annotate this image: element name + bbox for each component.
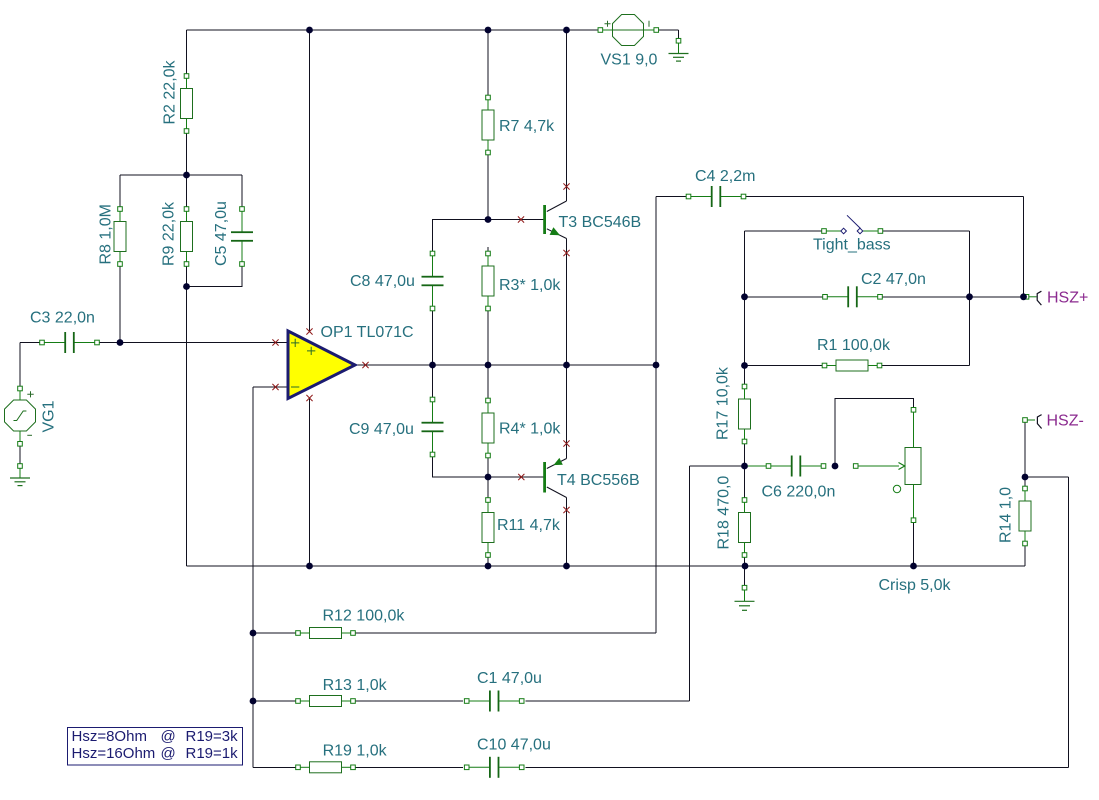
svg-text:Crisp 5,0k: Crisp 5,0k: [879, 577, 952, 594]
svg-text:R9 22,0k: R9 22,0k: [161, 201, 178, 266]
svg-text:C4 2,2m: C4 2,2m: [695, 168, 755, 185]
svg-text:T4 BC556B: T4 BC556B: [557, 472, 640, 489]
svg-text:C5 47,0u: C5 47,0u: [213, 201, 230, 266]
svg-text:Hsz=8Ohm: Hsz=8Ohm: [72, 728, 147, 745]
svg-text:R17 10,0k: R17 10,0k: [715, 366, 732, 440]
svg-text:VG1: VG1: [40, 400, 57, 432]
svg-text:R19 1,0k: R19 1,0k: [323, 743, 388, 760]
svg-text:R1 100,0k: R1 100,0k: [817, 337, 891, 354]
svg-text:HSZ-: HSZ-: [1047, 413, 1084, 430]
svg-text:HSZ+: HSZ+: [1047, 290, 1088, 307]
svg-text:R13 1,0k: R13 1,0k: [323, 677, 388, 694]
svg-text:R14 1,0: R14 1,0: [998, 487, 1015, 543]
svg-text:C6 220,0n: C6 220,0n: [762, 484, 836, 501]
svg-text:OP1 TL071C: OP1 TL071C: [321, 324, 414, 341]
svg-text:C9 47,0u: C9 47,0u: [349, 421, 414, 438]
svg-text:C10 47,0u: C10 47,0u: [477, 737, 551, 754]
svg-text:@: @: [161, 728, 176, 745]
svg-text:Hsz=16Ohm: Hsz=16Ohm: [72, 745, 156, 762]
svg-text:T3 BC546B: T3 BC546B: [559, 214, 642, 231]
svg-text:C2 47,0n: C2 47,0n: [861, 271, 926, 288]
svg-text:R11 4,7k: R11 4,7k: [497, 517, 561, 534]
svg-text:R12 100,0k: R12 100,0k: [323, 608, 406, 625]
svg-text:VS1 9,0: VS1 9,0: [601, 52, 658, 69]
svg-text:C8 47,0u: C8 47,0u: [350, 273, 415, 290]
svg-text:R18 470,0: R18 470,0: [716, 476, 733, 550]
svg-text:R19=1k: R19=1k: [186, 745, 239, 762]
svg-text:R4* 1,0k: R4* 1,0k: [499, 421, 561, 438]
svg-text:R3* 1,0k: R3* 1,0k: [499, 277, 561, 294]
svg-text:Tight_bass: Tight_bass: [813, 237, 891, 254]
svg-text:R8 1,0M: R8 1,0M: [98, 204, 115, 264]
svg-text:C1 47,0u: C1 47,0u: [477, 670, 542, 687]
svg-text:C3 22,0n: C3 22,0n: [30, 310, 95, 327]
svg-text:R2 22,0k: R2 22,0k: [162, 59, 179, 124]
svg-text:R19=3k: R19=3k: [186, 728, 239, 745]
svg-text:@: @: [161, 745, 176, 762]
svg-text:R7 4,7k: R7 4,7k: [499, 118, 555, 135]
